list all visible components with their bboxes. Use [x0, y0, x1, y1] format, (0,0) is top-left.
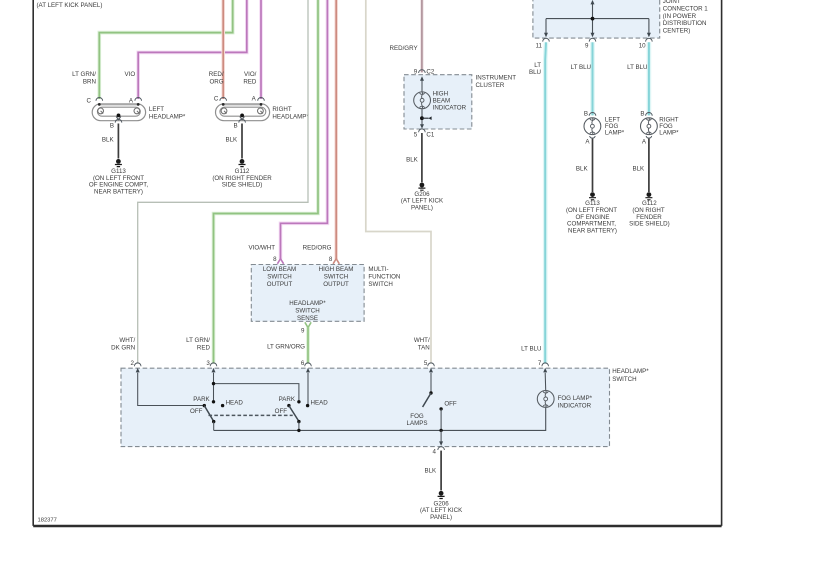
svg-text:VIO/RED: VIO/RED: [243, 71, 257, 86]
wire joint connector feed: [546, 3, 649, 34]
svg-text:LT BLU: LT BLU: [571, 64, 591, 71]
wire BLK pin 4 to G206: [440, 451, 442, 491]
lamp E2 right headlamp: [216, 103, 270, 121]
left fog lamp pin B: [584, 111, 596, 118]
arrow feed up: [591, 0, 595, 4]
svg-text:C: C: [87, 98, 92, 105]
right headlamp pin C: [214, 95, 227, 102]
svg-text:PARK: PARK: [279, 396, 296, 403]
svg-text:RED/GRY: RED/GRY: [390, 45, 418, 52]
ground G112 (right fog lamp): [629, 192, 670, 227]
wire VIO/RED to right headlamp pin A: [259, 0, 263, 99]
svg-text:B: B: [584, 111, 588, 118]
switch S2 park/off/head right: [275, 396, 329, 430]
arrow into instrument cluster: [420, 76, 424, 81]
connector C1 pin 5 instrument cluster: [414, 129, 435, 139]
svg-text:BLK: BLK: [225, 137, 238, 144]
multi-function switch pin 8 (high beam): [329, 256, 339, 264]
arrow pin 2: [136, 368, 140, 373]
wire LT GRN/RED to headlamp switch pin 3: [214, 0, 319, 364]
node joint connector junction: [591, 17, 595, 21]
headlamp switch pin 6: [301, 360, 311, 367]
wire RED/ORG to right headlamp pin C: [221, 0, 225, 99]
lamp E4 right fog lamp: [641, 118, 658, 135]
ground G112 (right headlamp): [212, 159, 272, 189]
wire pin 7 to fog indicator: [544, 373, 547, 391]
svg-text:B: B: [233, 122, 237, 129]
wire LT BLU pin 10 to right fog lamp: [647, 42, 652, 115]
svg-text:PARK: PARK: [193, 396, 210, 403]
wire pin 6 to head contact: [307, 373, 309, 405]
svg-text:BLK: BLK: [424, 468, 437, 475]
svg-text:9: 9: [585, 42, 589, 49]
joint connector 1 box: [533, 0, 660, 38]
connector pin 9: [585, 38, 596, 49]
svg-text:B: B: [640, 111, 644, 118]
instrument cluster box: [404, 75, 472, 129]
connector C2 pin 9 instrument cluster: [414, 69, 435, 76]
svg-text:VIO/WHT: VIO/WHT: [249, 245, 276, 252]
svg-text:BLK: BLK: [632, 166, 645, 173]
left headlamp pin B: [110, 119, 122, 129]
wire switch common bus: [214, 408, 546, 431]
wire to pin 4: [440, 430, 442, 442]
svg-text:LOW BEAMSWITCHOUTPUT: LOW BEAMSWITCHOUTPUT: [263, 266, 296, 288]
wire LT GRN/BRN to left headlamp pin C: [99, 0, 232, 99]
wire inside instrument cluster: [421, 80, 423, 125]
headlamp switch box: [121, 368, 610, 446]
wire pin 3 to park contacts: [214, 373, 299, 402]
headlamp switch pin 5: [424, 360, 434, 367]
node branch junction: [212, 382, 215, 385]
left headlamp pin A: [129, 98, 142, 105]
svg-text:11: 11: [536, 42, 543, 49]
svg-text:OFF: OFF: [275, 408, 288, 415]
wire BLK right headlamp to G112: [241, 124, 243, 159]
svg-text:OFF: OFF: [444, 400, 457, 407]
svg-text:8: 8: [273, 256, 277, 263]
svg-text:LT BLU: LT BLU: [521, 346, 541, 353]
ground G206 (headlamp switch): [420, 491, 463, 521]
right headlamp pin B: [233, 119, 245, 129]
left fog lamp pin A: [585, 136, 595, 145]
svg-text:10: 10: [639, 42, 646, 49]
arrow pin 4: [439, 441, 443, 446]
ground G206 (instrument cluster): [401, 183, 444, 212]
right fog lamp pin B: [640, 111, 652, 118]
multi-function switch pin 8 (low beam): [273, 256, 283, 264]
headlamp switch pin 7: [538, 360, 549, 367]
wire BLK instrument cluster to G206: [421, 133, 423, 182]
wire BLK left headlamp to G113: [117, 124, 119, 159]
arrow pin 5: [429, 368, 433, 373]
svg-text:FOG LAMP*INDICATOR: FOG LAMP*INDICATOR: [558, 395, 593, 409]
arrow pin 7: [543, 368, 547, 373]
node bus junction fog off: [439, 429, 442, 432]
wire pin 2 to OFF contact: [138, 373, 203, 406]
svg-text:(AT LEFT KICK PANEL): (AT LEFT KICK PANEL): [37, 2, 103, 9]
svg-text:4: 4: [433, 448, 437, 455]
arrow joint connector pin 11: [544, 33, 548, 38]
svg-text:BLK: BLK: [576, 166, 589, 173]
headlamp switch pin 3: [206, 360, 216, 367]
connector pin 11: [536, 38, 550, 49]
wire WHT/DK GRN to headlamp switch pin 2: [138, 0, 308, 364]
connector pin 10: [639, 38, 652, 49]
wire WHT/TAN to headlamp switch pin 5: [366, 0, 431, 364]
svg-text:BLK: BLK: [406, 156, 419, 163]
svg-text:HEAD: HEAD: [311, 400, 329, 407]
lamp E3 left fog lamp: [584, 118, 601, 135]
multi-function switch box: [251, 265, 364, 322]
arrow joint connector pin 10: [647, 33, 651, 38]
lamp high beam indicator: [414, 92, 431, 109]
svg-text:OFF: OFF: [190, 408, 203, 415]
wire BLK right fog lamp to G112: [648, 139, 650, 192]
svg-text:HEAD: HEAD: [226, 400, 244, 407]
svg-text:LT BLU: LT BLU: [627, 64, 647, 71]
svg-text:RED/ORG: RED/ORG: [209, 71, 224, 86]
arrow joint connector pin 9: [591, 33, 595, 38]
svg-text:8: 8: [329, 256, 333, 263]
svg-text:LT GRN/ORG: LT GRN/ORG: [267, 344, 305, 351]
wire VIO/WHT to multi-function switch pin 8: [281, 0, 328, 259]
wire VIO to left headlamp pin A: [138, 0, 247, 99]
lamp fog lamp indicator: [537, 391, 554, 408]
svg-text:RED/ORG: RED/ORG: [303, 245, 332, 252]
connector pin 4: [433, 447, 445, 456]
switch S3 fog lamps: [407, 373, 457, 431]
multi-function switch pin 9: [301, 322, 311, 334]
node junction with solid state device: [420, 116, 432, 120]
svg-text:C1: C1: [426, 132, 434, 139]
svg-text:182377: 182377: [38, 518, 57, 524]
right fog lamp pin A: [642, 136, 652, 145]
svg-text:B: B: [110, 122, 114, 129]
svg-text:HIGH BEAMSWITCHOUTPUT: HIGH BEAMSWITCHOUTPUT: [319, 266, 354, 288]
right headlamp pin A: [252, 95, 265, 102]
arrow pin 3: [212, 368, 216, 373]
headlamp switch pin 2: [131, 360, 141, 367]
svg-text:9: 9: [301, 327, 305, 334]
wire LT BLU pin 9 to left fog lamp: [590, 42, 595, 115]
mechanical link dashed: [209, 414, 293, 416]
wire RED/ORG to multi-function switch pin 8: [334, 0, 338, 259]
svg-text:5: 5: [414, 132, 418, 139]
svg-text:VIO: VIO: [125, 71, 136, 78]
svg-text:BLK: BLK: [102, 137, 115, 144]
svg-text:C: C: [214, 95, 219, 102]
arrow out of instrument cluster: [420, 124, 424, 128]
lamp E1 left headlamp: [92, 103, 145, 121]
wire LT GRN/ORG to headlamp switch pin 6: [306, 327, 310, 364]
wire BLK left fog lamp to G113: [592, 139, 594, 192]
ground G113 (left fog lamp): [566, 192, 617, 234]
svg-text:7: 7: [538, 360, 542, 367]
wire RED/GRY to instrument cluster pin 9: [420, 0, 423, 72]
switch S1 park/off/head left: [190, 396, 243, 430]
wire LT BLU pin 11 to headlamp switch pin 7: [543, 42, 548, 363]
ground G113 (left headlamp): [89, 159, 148, 195]
node bus junction right switch: [297, 429, 300, 432]
arrow pin 6: [306, 368, 310, 373]
left headlamp pin C: [87, 98, 103, 105]
